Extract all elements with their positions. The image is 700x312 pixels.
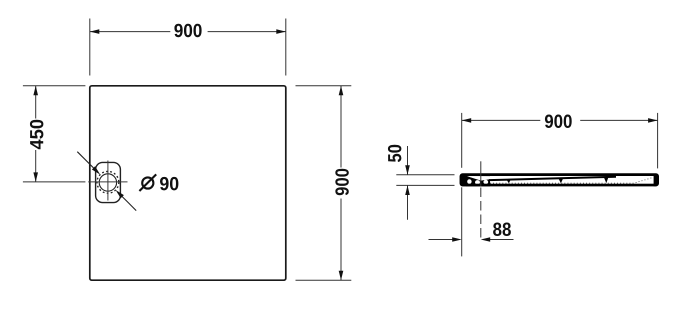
side 50 dimension: extension lines — [396, 174, 454, 176]
rib triangle 2 — [558, 178, 563, 183]
side 50 dimension: dimension line below w/ up arrow — [407, 185, 409, 219]
top dimension arrows — [90, 29, 100, 34]
drain dashed circle (cutout Ø90) — [97, 171, 119, 193]
leader line upper-left with arrow to circle — [77, 152, 100, 175]
left dimension text 450 (rotated) — [30, 120, 43, 150]
88 dimension line left part w/ right arrow — [429, 239, 453, 241]
right dimension text 900 (rotated) — [335, 169, 348, 196]
drain vertical centerline — [107, 161, 109, 201]
leader line lower-right with arrow to circle — [116, 190, 137, 211]
drain recess block — [466, 174, 490, 187]
drain centerline (side view) — [480, 161, 482, 186]
air wedge above floor (white) — [467, 176, 492, 181]
88 dimension line right part w/ left arrow — [490, 239, 514, 241]
label Ø 90 — [139, 174, 178, 191]
left dimension 450: extension lines — [23, 85, 86, 87]
rib triangle 1 — [506, 179, 511, 183]
top dimension 900: dimension line — [90, 31, 171, 33]
right dimension 900: dimension line — [340, 86, 342, 168]
top dimension text 900 — [174, 24, 201, 37]
top rim band — [469, 174, 655, 176]
right end cap — [654, 174, 659, 187]
88 dimension: left extension line down from profile end — [461, 187, 463, 256]
trap cavity white circles — [467, 179, 471, 184]
profile outline — [460, 174, 658, 186]
right dimension arrows — [339, 86, 344, 96]
side top dimension text 900 — [545, 115, 572, 128]
top dimension 900: extension lines — [89, 19, 91, 76]
drain horizontal centerline — [88, 181, 127, 183]
side top dimension arrows — [462, 118, 472, 123]
shower tray square outline — [90, 86, 286, 280]
floor surface line — [489, 177, 616, 180]
hidden bottom dotted line — [490, 178, 652, 184]
drain rounded rectangle — [96, 162, 121, 202]
right dimension 900: extension lines — [296, 85, 352, 87]
drain solid circle — [99, 174, 116, 191]
side 50 dimension: dimension line above w/ down arrow — [407, 146, 409, 175]
side top dimension 900: dimension line — [462, 119, 541, 121]
side top dimension 900: extension lines — [461, 113, 463, 168]
88 dimension text — [493, 223, 511, 236]
left dimension 450: dimension line — [35, 86, 37, 119]
bottom band — [461, 184, 658, 186]
left rim cap (solid) — [460, 174, 470, 187]
left dimension arrows — [33, 86, 38, 96]
rib triangle 3 — [604, 177, 609, 183]
side 50 dimension text (rotated) — [388, 145, 401, 162]
